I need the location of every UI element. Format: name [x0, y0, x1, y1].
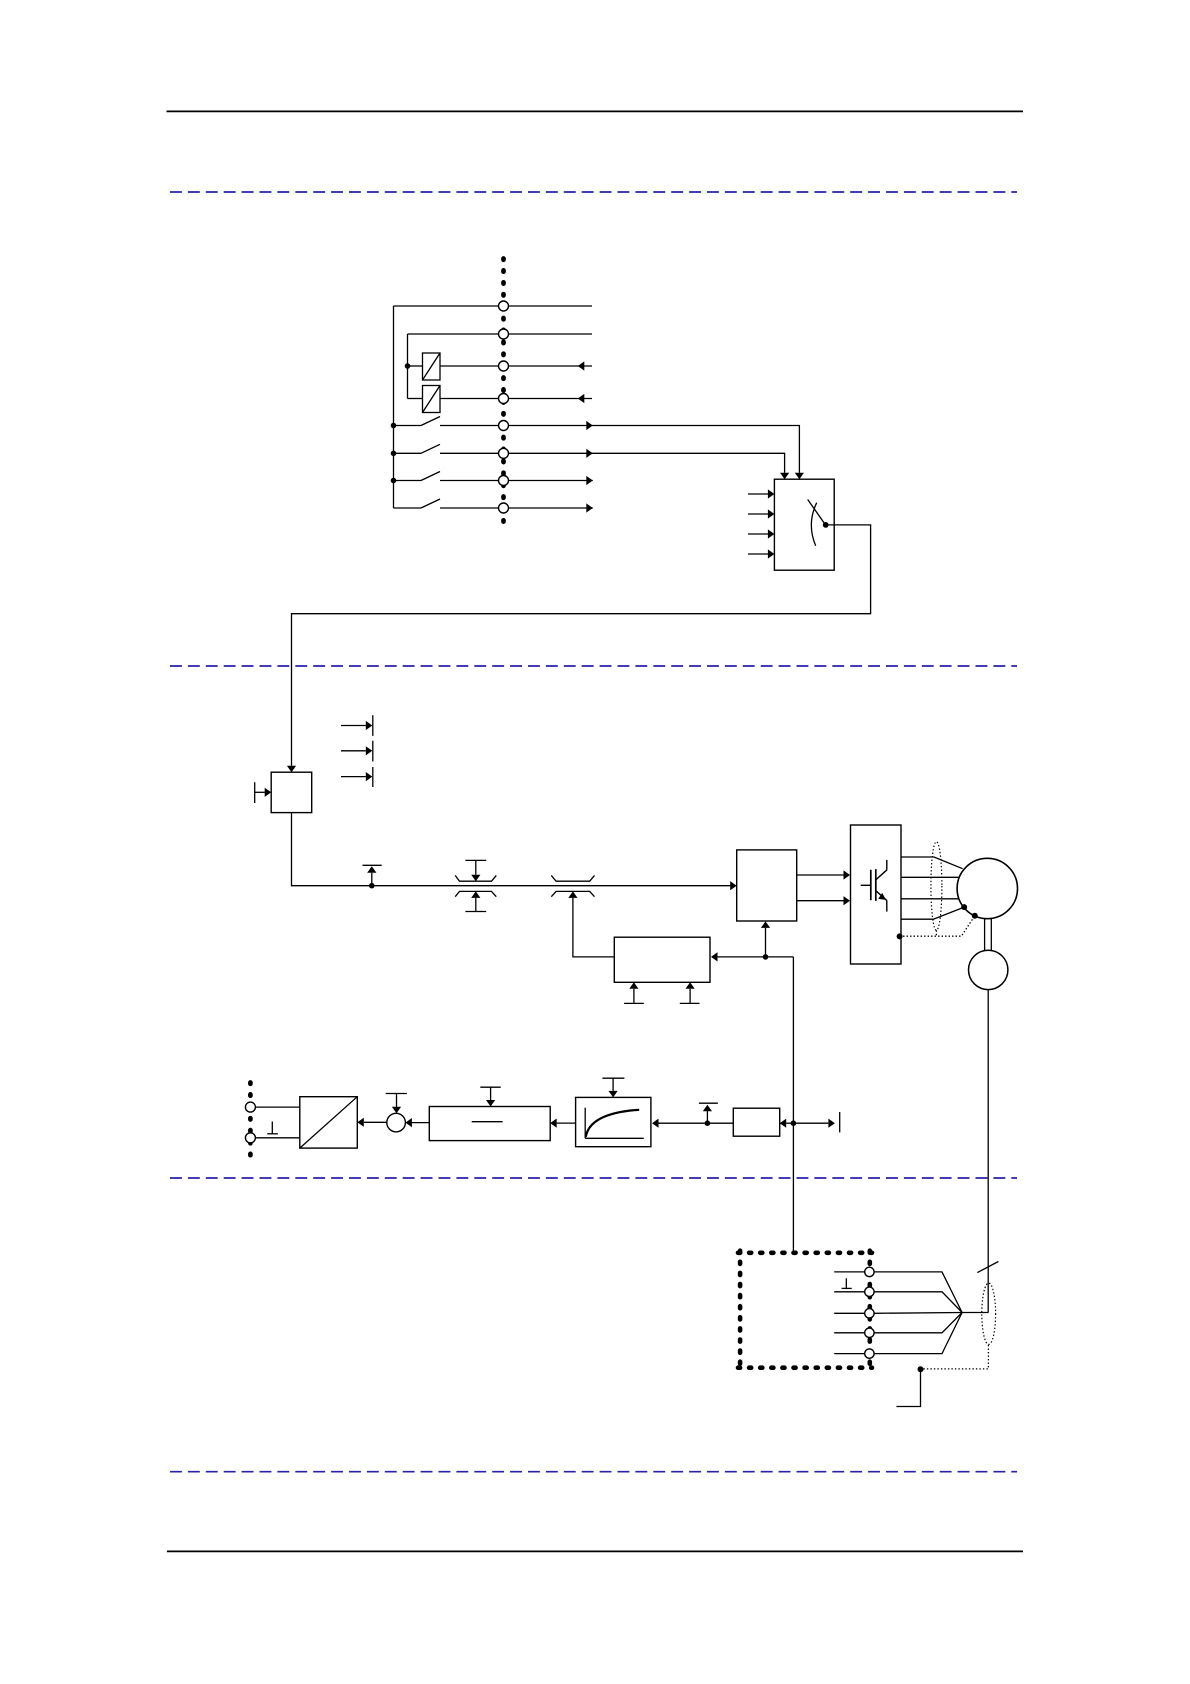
- parameter tap arrow 1: [341, 725, 366, 727]
- terminal circle T5: [499, 421, 509, 431]
- node shield at inverter: [897, 933, 903, 939]
- analog output converter U3 (box 1): [423, 353, 441, 380]
- encoder cable wire 2: [874, 1292, 962, 1313]
- switch S1 (DI1): [394, 425, 422, 427]
- selected reference wire to section 2: [292, 525, 871, 766]
- terminal circle T8: [499, 503, 509, 513]
- limiter symbol 1 bottom bracket: [455, 891, 496, 896]
- node feedback tap: [705, 1120, 711, 1126]
- summing offset arrow: [386, 1093, 407, 1095]
- wire AO1 right: [440, 365, 592, 367]
- switch S2 (DI2): [394, 452, 422, 454]
- terminal block X2 dotted strip: [501, 259, 506, 532]
- terminal circle T3: [499, 361, 509, 371]
- reference selector block A1: [774, 479, 834, 570]
- motor M1: [957, 858, 1017, 918]
- wire filter to gain: [557, 1122, 576, 1124]
- encoder cable shield ellipse: [982, 1283, 996, 1344]
- terminal circle T6: [499, 448, 509, 458]
- feedback tap to terminator: [793, 1122, 828, 1124]
- module internal wire ch1: [834, 1271, 869, 1273]
- terminal circle T7: [499, 476, 509, 486]
- tacho feedback wire: [987, 990, 989, 1313]
- limiter 1 upper limit arrow: [465, 859, 486, 861]
- acceleration ramp block A3: [614, 937, 710, 982]
- ramp time parameter arrow 2: [680, 1002, 700, 1004]
- section divider dashed line 3: [170, 1177, 1017, 1179]
- node on relay common at AO1: [405, 363, 411, 369]
- terminal circle T1: [499, 301, 509, 311]
- module ground symbol: [845, 1278, 847, 1288]
- node ref tap: [369, 883, 375, 889]
- summing point U6: [387, 1113, 406, 1132]
- wire AO2 left: [408, 398, 423, 400]
- encoder cable trunk: [962, 1312, 988, 1314]
- reference wire to speed controller: [292, 813, 731, 886]
- constant input bar: [254, 782, 256, 803]
- node shield drain: [918, 1366, 924, 1372]
- filter time parameter arrow: [602, 1077, 624, 1079]
- module terminal circle 1: [865, 1267, 874, 1276]
- selector input stub 4: [748, 553, 769, 555]
- node DI3: [391, 478, 397, 484]
- motor phase wire W: [901, 898, 958, 900]
- wire AO1 left: [408, 365, 423, 367]
- node feedback line: [791, 1120, 797, 1126]
- wire gain to summing: [412, 1122, 429, 1124]
- wire summing to converter: [364, 1121, 387, 1123]
- parameter tap arrow 3: [341, 776, 366, 778]
- controller output wire 2: [797, 900, 844, 902]
- page footer rule: [167, 1550, 1023, 1552]
- section divider dashed line 4: [170, 1471, 1017, 1473]
- ref tap arrow up: [371, 873, 373, 886]
- limiter 2 limit wire from ramp: [573, 898, 614, 957]
- wire from feedback line to scale block: [786, 1122, 793, 1124]
- node ramp branch: [763, 954, 769, 960]
- node motor shield: [972, 913, 978, 919]
- relay common wire (second vertical): [407, 334, 409, 399]
- wire RO2 (line 2): [408, 333, 593, 335]
- selector switch symbol: [808, 500, 825, 524]
- terminal circle T4: [499, 394, 509, 404]
- shield ellipse dotted drop: [935, 930, 937, 936]
- motor shaft coupling: [984, 919, 986, 951]
- controller output wire 1: [797, 874, 844, 876]
- terminal circle T2: [499, 329, 509, 339]
- shield drain dotted wire: [921, 1345, 989, 1369]
- shield bond dotted wire: [900, 916, 975, 937]
- wire RO1 (line 1): [394, 305, 593, 307]
- section divider dashed line 1: [170, 191, 1017, 193]
- feedback scale block A8: [733, 1108, 779, 1136]
- tacho wire disconnect mark: [977, 1262, 998, 1273]
- constant input wire: [255, 791, 265, 793]
- module terminal circle 2: [865, 1287, 874, 1296]
- ramp time parameter arrow 1: [624, 1002, 644, 1004]
- IGBT Q1: [861, 860, 887, 912]
- selector input stub 3: [748, 533, 769, 535]
- filter block A7: [576, 1097, 651, 1146]
- gain parameter arrow: [480, 1086, 500, 1088]
- motor phase wire V: [901, 876, 958, 878]
- encoder cable wire 1: [874, 1272, 962, 1313]
- ramp input wire from feedback line: [718, 956, 794, 958]
- terminal circle AI1-: [245, 1133, 255, 1143]
- wire DI1 to selector: [440, 426, 799, 473]
- selector input stub 1: [748, 493, 769, 495]
- selector input stub 2: [748, 513, 769, 515]
- encoder cable wire 3: [874, 1312, 962, 1315]
- switch S3 (DI3): [394, 480, 422, 482]
- module terminal circle 5: [865, 1349, 874, 1358]
- wire scale to filter: [659, 1122, 734, 1124]
- terminal block X3 dotted strip: [248, 1083, 253, 1159]
- reference scaling block A2: [271, 772, 312, 812]
- wire DI2 to selector: [440, 453, 785, 472]
- page header rule: [167, 110, 1024, 112]
- module internal wire ch5: [834, 1353, 869, 1355]
- module internal wire ch4: [834, 1332, 869, 1334]
- module terminal circle 3: [865, 1309, 874, 1318]
- branch arrow to speed controller: [765, 928, 767, 957]
- feedback tap arrow up: [706, 1111, 708, 1123]
- limiter symbol 1 top bracket: [455, 875, 496, 881]
- switch S4 (DI4): [394, 507, 422, 509]
- module internal wire ch2: [834, 1291, 869, 1293]
- encoder cable wire 4: [874, 1313, 962, 1333]
- speed controller block A4: [737, 850, 797, 921]
- node DI1: [391, 423, 397, 429]
- inverting gain block A6: [429, 1107, 550, 1141]
- wire DI3: [440, 480, 593, 482]
- common bus wire (left vertical): [393, 306, 395, 508]
- limiter symbol 2 bottom bracket: [551, 891, 594, 896]
- limiter 1 lower limit arrow: [465, 911, 486, 913]
- node DI2: [391, 451, 397, 457]
- wire DI4: [440, 507, 593, 509]
- encoder option module dotted box: [738, 1251, 872, 1370]
- parameter tap arrow 2: [341, 750, 366, 752]
- limiter symbol 2 top bracket: [551, 875, 594, 881]
- signal ground symbol: [271, 1122, 273, 1134]
- module internal wire ch3: [834, 1312, 869, 1314]
- analog output converter U4 (box 2): [423, 386, 441, 413]
- wire AO2 right: [440, 398, 592, 400]
- terminal circle AI1+: [245, 1102, 255, 1112]
- A/D converter U5: [300, 1097, 358, 1148]
- node motor PE: [961, 904, 967, 910]
- section divider dashed line 2: [170, 665, 1017, 667]
- inverter block A5: [851, 825, 902, 964]
- wire AI+: [250, 1106, 299, 1108]
- shield ground hook wire: [896, 1369, 920, 1406]
- wire AI-: [250, 1137, 299, 1139]
- module terminal circle 4: [865, 1328, 874, 1337]
- speed feedback vertical wire: [792, 957, 794, 1253]
- motor phase wire U: [901, 857, 963, 869]
- tachometer B1: [969, 950, 1008, 989]
- encoder cable wire 5: [874, 1313, 962, 1354]
- cable shield ellipse: [931, 842, 942, 931]
- motor PE wire: [901, 907, 964, 919]
